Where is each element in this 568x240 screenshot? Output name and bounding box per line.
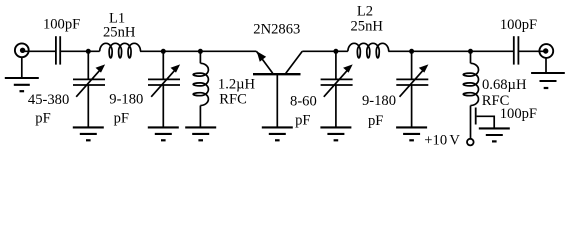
RFC2 0.68uH choke [463,51,478,139]
inductor L2 25nH [348,43,389,58]
svg-text:0.68µH: 0.68µH [482,77,527,93]
inductor L1 25nH [100,43,141,58]
ground (VC4) [396,127,427,140]
svg-text:100pF: 100pF [43,16,80,32]
svg-text:pF: pF [114,110,129,126]
node F junction [468,49,473,54]
wire input jack to C1 [23,50,55,52]
svg-text:100pF: 100pF [500,106,537,122]
node D junction [333,49,338,54]
ground (VC3) [320,127,351,140]
variable capacitor VC4 9-180pF [396,51,428,127]
svg-text:25nH: 25nH [103,25,136,41]
svg-text:9-180: 9-180 [362,93,396,109]
ground (output jack) [531,58,565,88]
svg-text:pF: pF [35,110,50,126]
svg-text:100pF: 100pF [500,17,537,33]
ground (VC2) [148,127,179,140]
ground (RFC1) [185,127,216,140]
variable capacitor VC1 45-380pF [73,51,105,127]
ground (Q1 base) [262,127,293,140]
svg-text:8-60: 8-60 [290,94,317,110]
node E junction [409,49,414,54]
svg-text:RFC: RFC [219,91,247,107]
svg-text:2N2863: 2N2863 [253,21,300,37]
svg-text:25nH: 25nH [350,18,383,34]
ground (C4 bypass) [479,128,510,141]
wire C2 to output jack [518,50,546,52]
svg-text:45-380: 45-380 [28,92,69,108]
svg-text:L2: L2 [357,4,373,20]
svg-text:pF: pF [295,113,310,129]
wire L1 to node B [140,50,200,52]
svg-text:pF: pF [368,113,383,129]
ground (VC1) [73,127,104,140]
wire Q1 collector to node D [302,50,348,52]
wire C1 to node A [60,50,99,52]
capacitor C1 100pF (series input) [56,36,60,64]
svg-text:V: V [449,133,460,149]
svg-text:9-180: 9-180 [109,92,143,108]
capacitor C2 100pF (series output) [514,36,519,64]
variable capacitor VC2 9-180pF [148,51,180,127]
bypass capacitor C4 100pF [476,108,495,129]
node C junction [198,49,203,54]
RFC1 1.2uH choke [193,51,208,127]
wire L2 to node F [388,50,514,52]
svg-text:1.2µH: 1.2µH [218,76,256,92]
ground (input jack) [5,57,39,91]
node B junction [161,49,166,54]
transistor Q1 2N2863 (common base) [253,51,302,127]
input jack J1 (coax connector) [15,43,29,57]
svg-text:+10: +10 [424,133,447,149]
+10V supply terminal [467,139,474,146]
output jack J2 (coax connector) [539,44,553,58]
node A junction [86,49,91,54]
wire node C to Q1 emitter [200,50,256,52]
variable capacitor VC3 8-60pF [321,51,353,127]
